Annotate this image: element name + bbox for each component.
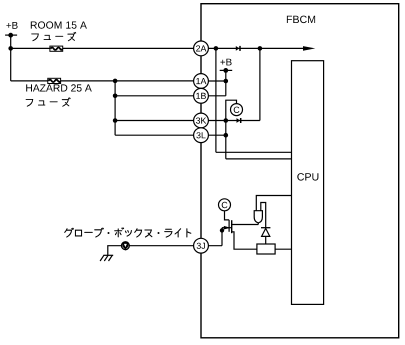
connector pin 3L xyxy=(194,128,209,143)
C circle 2 (gate driver) xyxy=(219,199,231,211)
junction dot 1A bus xyxy=(113,79,118,84)
wire: channel bottom to resistor xyxy=(232,232,257,249)
wire: vertical from dot B down to 3K diode line xyxy=(259,48,261,120)
FBCM label xyxy=(287,16,315,24)
junction dot on 1A xyxy=(224,79,229,84)
bulb (glove box light) xyxy=(122,242,130,250)
junction dot xyxy=(8,46,13,51)
connector pin 1B xyxy=(194,88,209,103)
junction dot A xyxy=(214,46,219,51)
bell component xyxy=(254,211,262,223)
wire: 3J to transistor xyxy=(201,245,222,247)
wire: 1A to +B vertical xyxy=(201,80,226,82)
wire: bus to 1B xyxy=(115,95,201,97)
transistor Q1 gate bar xyxy=(228,220,230,232)
+B terminal (top left) xyxy=(5,33,17,49)
C circle 1 (near 3K) xyxy=(231,104,243,116)
wire: 3L to bus xyxy=(201,134,226,136)
glove box light label (katakana) xyxy=(65,228,191,237)
bus vertical on left (joins 1A,1B,3K,3L) xyxy=(114,81,116,135)
ground xyxy=(100,255,113,261)
FBCM box xyxy=(201,4,399,338)
junction dot B xyxy=(258,46,263,51)
wire: vertical A from 2A line down xyxy=(215,48,217,152)
fuse HAZARD 25A xyxy=(48,78,61,83)
wire: bracket from C1 to 3K/3L bus xyxy=(226,100,237,159)
wire: bulb to ground xyxy=(108,246,122,256)
HAZARD 25 A label xyxy=(26,84,92,91)
ROOM 15 A label xyxy=(31,21,87,28)
connector pin 3J xyxy=(194,238,209,253)
connector pin 3K xyxy=(194,113,209,128)
diode D2 (on 3K line) xyxy=(237,118,241,123)
diode D3 (vertical, cathode up) xyxy=(261,228,270,244)
arrowhead xyxy=(303,46,315,51)
wire: bell tip to drain line xyxy=(257,223,259,225)
fuse label (katakana) xyxy=(32,32,76,40)
diode D1 (on 2A line) xyxy=(236,46,240,51)
+B label (inner) xyxy=(220,59,231,66)
junction dot source xyxy=(220,228,224,232)
transistor Q1 channel bar xyxy=(231,220,233,233)
wire: 2A to arrow (inside FBCM) xyxy=(201,47,304,49)
+B terminal (inner) xyxy=(220,68,233,96)
wire: drain to bell xyxy=(232,224,259,226)
wire: vertical +B down to HAZARD line xyxy=(10,48,12,81)
connector pin 2A xyxy=(194,41,209,56)
wire: CPU to bell top xyxy=(256,196,291,211)
+B label (top left) xyxy=(6,22,17,29)
junction dot 1B bus xyxy=(113,94,118,99)
wire: bulb to 3J xyxy=(129,245,201,247)
wire: resistor to CPU xyxy=(275,248,291,250)
junction dot on 3L xyxy=(224,133,229,138)
wire: bus to 3L xyxy=(115,134,201,136)
CPU box xyxy=(292,61,324,305)
resistor R1 xyxy=(257,244,275,254)
connector pin 1A xyxy=(194,74,209,89)
wire: jog bell top to diode D3 xyxy=(261,203,266,228)
fuse label 2 (katakana) xyxy=(26,98,70,106)
wire: C2 to gate xyxy=(225,211,230,220)
transistor source arrow xyxy=(222,226,232,230)
wire: +B to 2A (ROOM circuit) xyxy=(11,47,201,49)
CPU label xyxy=(297,173,318,181)
wire: bus to 3K xyxy=(115,120,201,122)
wire: HAZARD line to 1A xyxy=(11,80,201,82)
wire: source down to 3J line xyxy=(221,228,223,246)
junction dot 3K bus xyxy=(113,118,118,123)
wire: 1B to +B vertical xyxy=(201,95,226,97)
wire: bus C to CPU (lower) xyxy=(226,158,292,160)
fuse ROOM 15A xyxy=(50,46,63,51)
wire: 3K line to diode xyxy=(201,120,260,122)
junction dot on 3K xyxy=(224,118,229,123)
wire: to CPU (upper) xyxy=(216,151,292,153)
